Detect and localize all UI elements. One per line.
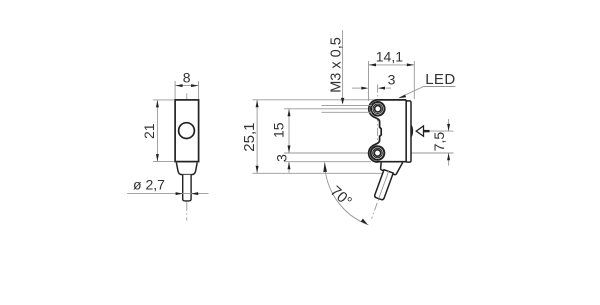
- dimension 15 line: [288, 109, 290, 153]
- dimension 15 bottom arrow: [288, 146, 291, 153]
- dimension 21 line: [156, 100, 158, 162]
- svg-text:8: 8: [183, 69, 191, 85]
- side view top hole center line: [284, 108, 404, 110]
- dimension dia 2,7 left arrow: [176, 192, 183, 195]
- side view top mounting hole: [371, 102, 385, 116]
- side view body bottom extension line: [284, 161, 371, 163]
- dimension 14,1 right arrow: [407, 63, 414, 66]
- dimension 70 degree arc: [325, 162, 369, 225]
- svg-text:7,5: 7,5: [431, 132, 447, 152]
- dimension 21 bottom arrow: [156, 154, 159, 161]
- svg-text:3: 3: [274, 154, 290, 162]
- front view center line: [186, 93, 188, 220]
- dimension 7,5 top arrow: [447, 124, 450, 131]
- dimension 21 top arrow: [156, 100, 159, 107]
- dimension dia 2,7 right arrow: [191, 192, 198, 195]
- side view holes vertical center line: [377, 85, 379, 161]
- dimension 14,1 line: [369, 64, 415, 66]
- dimension 7,5 shafts: [448, 119, 450, 166]
- front view cable: [183, 175, 191, 201]
- dimension 3 top left arrow: [361, 87, 368, 90]
- side view face plate: [406, 101, 411, 162]
- front view lens circle: [179, 123, 195, 139]
- M3 x 0,5 leader arrow: [341, 98, 344, 105]
- dimension 3 top tails: [352, 87, 391, 89]
- svg-text:21: 21: [141, 123, 157, 139]
- dimension 8 right arrow: [191, 84, 198, 87]
- dimension 3 left shaft: [288, 162, 290, 173]
- dimension 14,1 extension lines: [369, 61, 415, 101]
- LED leader line: [400, 87, 456, 98]
- LED leader arrow: [398, 95, 406, 99]
- svg-text:25,1: 25,1: [241, 122, 258, 151]
- side view gland end reference line: [253, 172, 386, 174]
- side view top extension line: [253, 99, 377, 101]
- front view body: [175, 100, 199, 162]
- svg-text:ø 2,7: ø 2,7: [133, 177, 165, 193]
- svg-text:M3 x 0,5: M3 x 0,5: [328, 37, 344, 93]
- front view cable sleeve: [176, 163, 197, 175]
- side view gland: [381, 163, 403, 175]
- svg-text:15: 15: [271, 122, 287, 138]
- dimension dia 2,7 line: [127, 193, 208, 195]
- dimension 8 line: [175, 85, 199, 87]
- dimension 21 extension lines: [153, 100, 174, 162]
- side view body outline: [369, 100, 407, 162]
- dimension 7,5 bottom arrow: [447, 153, 450, 160]
- dimension 70 degree upper arrow: [323, 162, 327, 172]
- dimension 14,1 left arrow: [369, 63, 376, 66]
- dimension 25,1 bottom arrow: [256, 166, 259, 173]
- M3 thread tangent lines: [322, 105, 372, 112]
- svg-text:LED: LED: [425, 71, 455, 88]
- dimension 3 left arrow: [288, 162, 291, 169]
- dimension 15 top arrow: [288, 109, 291, 116]
- side view body right edge: [405, 100, 407, 162]
- M3 x 0,5 leader line: [342, 30, 344, 99]
- svg-text:14,1: 14,1: [376, 49, 403, 65]
- side view bottom mounting hole: [371, 146, 385, 160]
- side view lens axis line: [430, 130, 454, 132]
- svg-text:3: 3: [388, 71, 396, 87]
- emission direction arrow: [416, 126, 423, 136]
- dimension 70 degree lower arrow: [361, 219, 368, 225]
- side view bottom hole center line: [284, 152, 454, 154]
- emission direction arrow tail: [424, 130, 430, 132]
- dimension 25,1 top arrow: [256, 100, 259, 107]
- dimension 8 left arrow: [175, 84, 182, 87]
- dimension 3 top right arrow: [378, 87, 385, 90]
- side view cable: [374, 170, 393, 201]
- side view cable axis line: [372, 162, 392, 219]
- dimension 25,1 line: [256, 100, 258, 174]
- side view lens bump: [411, 124, 414, 138]
- dimension 8 extension lines: [175, 81, 199, 99]
